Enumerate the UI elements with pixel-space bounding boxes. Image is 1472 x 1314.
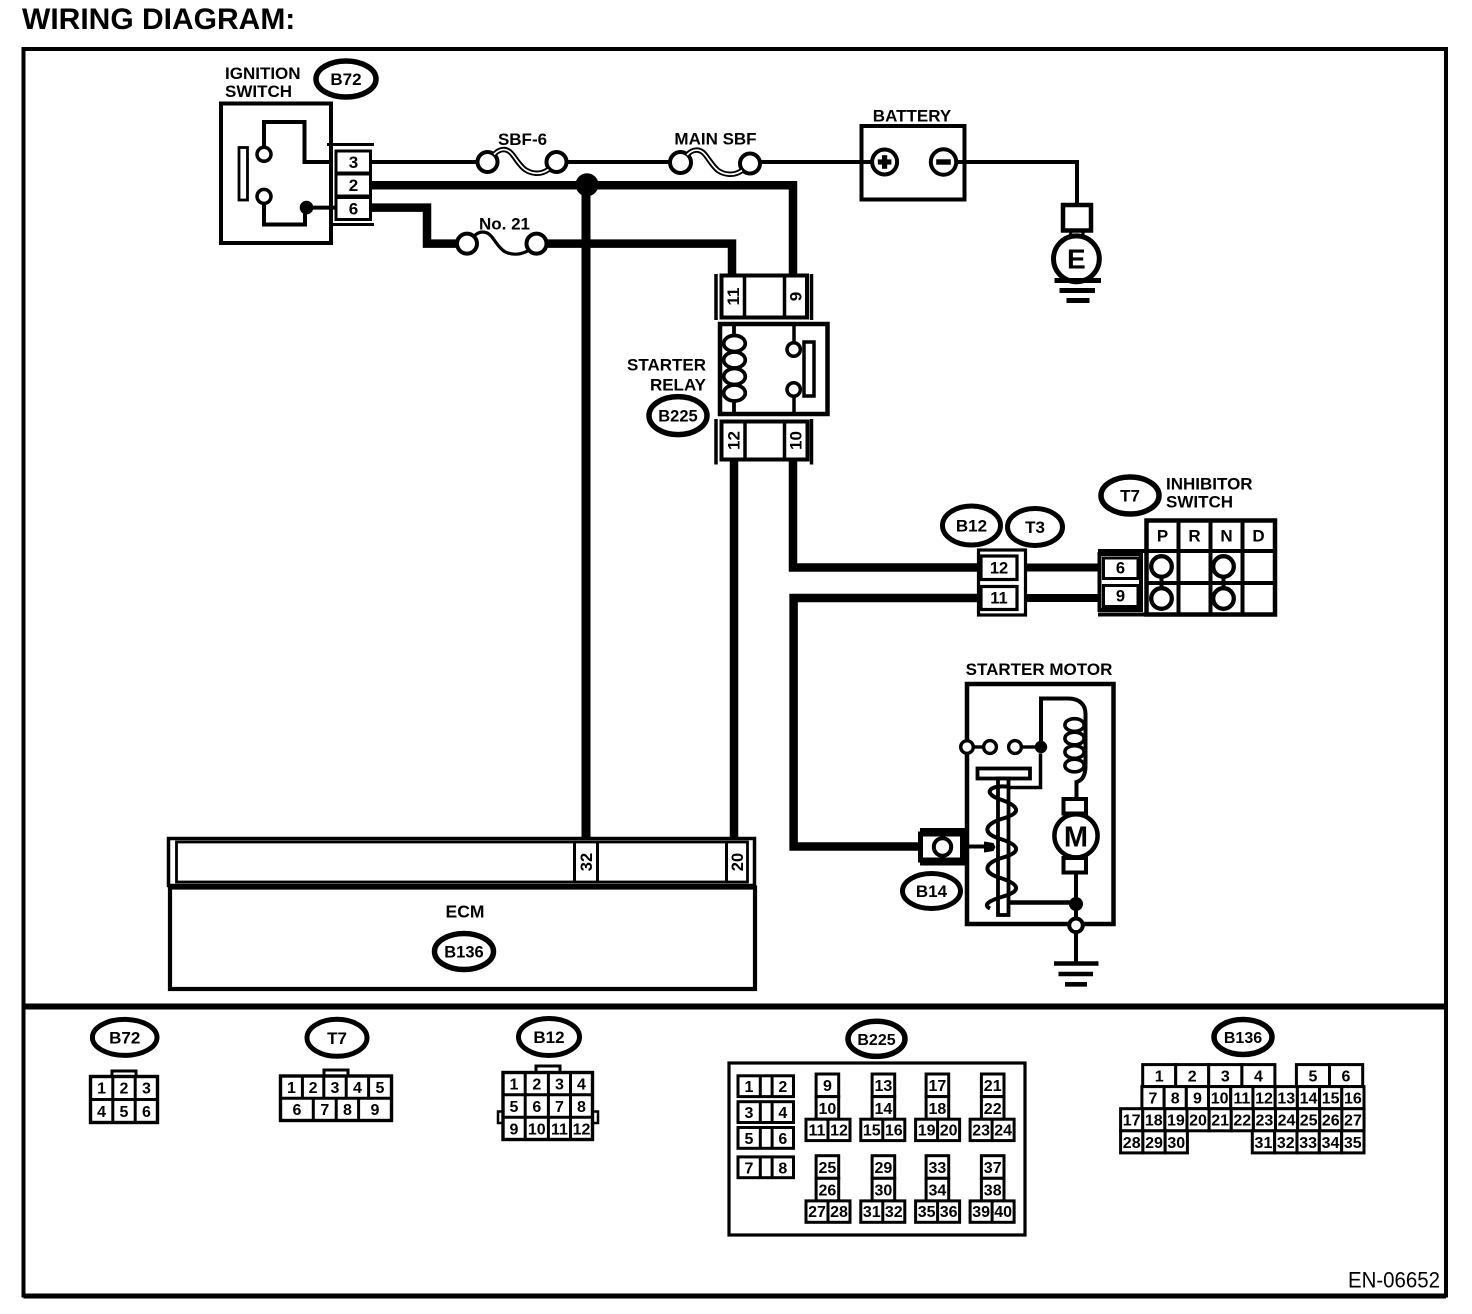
connector ref B72 oval (top) (316, 61, 376, 97)
svg-text:32: 32 (1277, 1135, 1295, 1152)
svg-text:31: 31 (863, 1204, 881, 1221)
ground E terminal square (1063, 205, 1091, 231)
svg-text:18: 18 (1145, 1113, 1163, 1130)
legend B72 connector grid (112, 1071, 136, 1077)
wire junction down to ECM pin 32 (582, 190, 591, 839)
motor M armature (1064, 799, 1087, 814)
svg-text:D: D (1252, 527, 1264, 546)
connector B12 pin 12 cell (981, 556, 1017, 580)
svg-text:2: 2 (309, 1080, 318, 1097)
ignition switch SW1 box (221, 104, 331, 244)
svg-text:25: 25 (819, 1160, 837, 1177)
legend B136 oval (1214, 1020, 1272, 1055)
battery minus terminal (931, 149, 956, 174)
connector T7 pin 6 cell (1104, 558, 1139, 579)
svg-text:10: 10 (787, 431, 806, 450)
svg-text:6: 6 (532, 1099, 541, 1116)
svg-text:3: 3 (349, 153, 358, 172)
svg-text:26: 26 (1322, 1113, 1340, 1130)
svg-text:15: 15 (863, 1122, 881, 1139)
battery plus terminal (872, 150, 897, 175)
svg-text:3: 3 (331, 1080, 340, 1097)
svg-text:36: 36 (940, 1204, 958, 1221)
ECM box (170, 888, 755, 990)
svg-text:16: 16 (885, 1122, 903, 1139)
svg-text:No. 21: No. 21 (479, 215, 530, 234)
legend B136 connector grid (1143, 1065, 1176, 1087)
svg-text:8: 8 (778, 1160, 787, 1177)
legend B225 pin group 17-20 (926, 1074, 949, 1097)
svg-text:20: 20 (1189, 1113, 1207, 1130)
legend B12 oval (519, 1019, 580, 1056)
svg-text:5: 5 (510, 1099, 519, 1116)
relay top connector box (722, 276, 808, 318)
svg-text:12: 12 (573, 1122, 591, 1139)
svg-text:4: 4 (1254, 1069, 1263, 1086)
wire junction to case node (1074, 904, 1078, 919)
svg-text:N: N (1220, 527, 1232, 546)
svg-text:30: 30 (875, 1183, 893, 1200)
separator line above connector legend (24, 1004, 1447, 1010)
fuse SBF-6 (478, 152, 498, 172)
junction node main feed (576, 173, 599, 196)
legend B225 pin group 29-32 (872, 1156, 895, 1179)
wire SBF-6 to MAIN SBF (567, 160, 671, 164)
svg-text:7: 7 (1149, 1091, 1158, 1108)
svg-text:B225: B225 (857, 1032, 895, 1049)
svg-text:19: 19 (1167, 1113, 1185, 1130)
wire ignition contact bottom to pin 6 (264, 203, 305, 224)
svg-text:18: 18 (929, 1101, 947, 1118)
connector ref T3 oval (1008, 509, 1063, 546)
svg-text:6: 6 (293, 1102, 302, 1119)
connector B12-T3 outer box (979, 550, 1026, 615)
svg-text:1: 1 (287, 1080, 296, 1097)
svg-text:32: 32 (885, 1204, 903, 1221)
wire B12-12 to T7-6 (1026, 564, 1099, 572)
svg-text:M: M (1064, 821, 1088, 853)
svg-text:12: 12 (1255, 1091, 1273, 1108)
legend B225 outer box (729, 1063, 1025, 1235)
wire pin 3 to fuse SBF-6 (371, 160, 478, 164)
inhibitor contact P (1151, 556, 1172, 577)
wire B12-11 to T7-9 (1026, 594, 1099, 602)
svg-text:27: 27 (1344, 1113, 1362, 1130)
svg-text:29: 29 (1145, 1135, 1163, 1152)
svg-text:SWITCH: SWITCH (1166, 493, 1233, 512)
wire plunger bottom to junction (1009, 900, 1077, 905)
relay contact (792, 324, 796, 343)
legend B225 oval (848, 1021, 905, 1056)
wire pin 6 to fuse No. 21 (371, 208, 458, 244)
svg-text:ECM: ECM (446, 902, 485, 922)
svg-text:9: 9 (823, 1078, 832, 1095)
svg-text:9: 9 (1116, 588, 1125, 606)
svg-text:21: 21 (1211, 1113, 1229, 1130)
svg-text:12: 12 (990, 560, 1008, 578)
inhibitor switch grid (1147, 521, 1276, 615)
solenoid plunger stem (998, 779, 1009, 916)
svg-text:11: 11 (724, 288, 743, 306)
wire MAIN SBF to battery (760, 160, 873, 164)
wire motor to junction (1074, 873, 1078, 899)
svg-text:SWITCH: SWITCH (225, 82, 292, 101)
svg-text:33: 33 (1299, 1135, 1317, 1152)
svg-text:14: 14 (875, 1101, 893, 1118)
svg-text:34: 34 (1322, 1135, 1340, 1152)
svg-text:32: 32 (578, 853, 596, 871)
svg-text:6: 6 (1116, 560, 1125, 578)
legend T7 oval (307, 1019, 367, 1056)
svg-text:1: 1 (1155, 1069, 1164, 1086)
legend B225 pin group 37-40 (981, 1156, 1004, 1179)
svg-text:22: 22 (1233, 1113, 1251, 1130)
ignition switch contact bottom (257, 189, 271, 203)
svg-text:39: 39 (972, 1204, 990, 1221)
legend B72 oval (92, 1019, 157, 1055)
svg-text:5: 5 (376, 1080, 385, 1097)
wire battery to ground E (956, 162, 1077, 206)
svg-text:STARTER MOTOR: STARTER MOTOR (966, 660, 1113, 679)
svg-text:40: 40 (994, 1204, 1012, 1221)
svg-text:1: 1 (745, 1079, 754, 1096)
svg-text:33: 33 (929, 1160, 947, 1177)
svg-text:6: 6 (349, 200, 358, 219)
svg-text:B136: B136 (444, 944, 483, 962)
svg-text:38: 38 (984, 1183, 1002, 1200)
connector B72 bracket (327, 143, 374, 146)
legend B225 pin group 13-16 (872, 1074, 895, 1097)
svg-text:7: 7 (555, 1099, 564, 1116)
connector ref T7 oval (top) (1101, 477, 1159, 514)
svg-text:9: 9 (1193, 1091, 1202, 1108)
wire plunger to contact dot (1009, 754, 1041, 788)
svg-text:5: 5 (120, 1104, 129, 1121)
connector B14 pin circle (934, 838, 951, 855)
motor field coil (1065, 719, 1084, 732)
svg-text:23: 23 (1256, 1113, 1274, 1130)
connector ref B136 oval (ECM) (435, 934, 494, 970)
svg-text:17: 17 (929, 1078, 947, 1095)
contact junction dot (1035, 741, 1047, 753)
connector B14 box (921, 834, 963, 860)
connector T7 pin 9 cell (1104, 586, 1139, 607)
svg-text:30: 30 (1167, 1135, 1185, 1152)
svg-text:R: R (1188, 527, 1200, 546)
relay top connector bracket (714, 274, 718, 320)
svg-text:3: 3 (555, 1077, 564, 1094)
legend B225 pin group 21-24 (981, 1074, 1004, 1097)
connector ref B12 oval (mid) (943, 506, 1001, 545)
ground symbol starter motor (1054, 961, 1099, 966)
svg-text:2: 2 (1188, 1069, 1197, 1086)
svg-text:35: 35 (1344, 1135, 1362, 1152)
legend T7 connector grid (324, 1070, 348, 1076)
svg-text:15: 15 (1322, 1091, 1340, 1108)
svg-text:IGNITION: IGNITION (225, 64, 301, 83)
wire dot to pin 6 (307, 206, 337, 210)
connector ref B225 oval (relay) (649, 397, 707, 435)
connector B72 pin 6 cell (336, 198, 371, 220)
svg-text:8: 8 (343, 1102, 352, 1119)
svg-text:11: 11 (809, 1122, 826, 1139)
svg-text:2: 2 (532, 1077, 541, 1094)
svg-text:3: 3 (745, 1105, 754, 1122)
svg-text:19: 19 (918, 1122, 936, 1139)
wire pin 2 to relay pin 9 (371, 185, 794, 274)
svg-text:14: 14 (1300, 1091, 1318, 1108)
svg-text:RELAY: RELAY (650, 376, 707, 395)
svg-text:T7: T7 (327, 1029, 347, 1048)
svg-text:20: 20 (729, 853, 747, 871)
svg-text:12: 12 (725, 431, 744, 450)
wire No. 21 to relay pin 11 (547, 244, 733, 274)
svg-text:6: 6 (778, 1131, 787, 1148)
svg-text:31: 31 (1255, 1135, 1273, 1152)
fuse MAIN SBF (670, 152, 691, 173)
legend B225 pin group 33-36 (926, 1156, 949, 1179)
svg-text:16: 16 (1344, 1091, 1362, 1108)
legend B12 connector grid (536, 1066, 560, 1073)
svg-text:8: 8 (1171, 1091, 1180, 1108)
svg-text:11: 11 (1233, 1091, 1250, 1108)
svg-text:B136: B136 (1224, 1030, 1262, 1047)
svg-text:2: 2 (120, 1081, 129, 1098)
connector B12 pin 11 cell (981, 587, 1017, 610)
svg-text:8: 8 (577, 1099, 586, 1116)
svg-text:37: 37 (984, 1160, 1002, 1177)
svg-text:B12: B12 (956, 517, 987, 536)
svg-text:B225: B225 (658, 408, 697, 426)
svg-text:5: 5 (1309, 1069, 1318, 1086)
svg-text:11: 11 (551, 1122, 568, 1139)
inhibitor contact N (1213, 556, 1234, 577)
wire ignition contact top to pin 3 (264, 122, 331, 162)
relay bottom connector box (722, 422, 808, 460)
svg-text:35: 35 (918, 1204, 936, 1221)
ground E circle (1054, 236, 1100, 282)
svg-text:MAIN SBF: MAIN SBF (674, 130, 756, 149)
solenoid spring (987, 786, 1016, 908)
svg-text:34: 34 (929, 1183, 947, 1200)
svg-text:28: 28 (830, 1204, 848, 1221)
svg-text:B12: B12 (533, 1028, 564, 1047)
svg-text:10: 10 (1211, 1091, 1229, 1108)
legend B225 pin group 25-28 (816, 1156, 839, 1179)
battery box (862, 126, 965, 200)
relay B225 body (720, 324, 828, 414)
svg-text:2: 2 (349, 176, 358, 195)
svg-text:13: 13 (1277, 1091, 1295, 1108)
svg-text:4: 4 (353, 1080, 362, 1097)
svg-text:1: 1 (97, 1081, 106, 1098)
svg-text:WIRING DIAGRAM:: WIRING DIAGRAM: (22, 3, 295, 36)
relay coil (732, 324, 736, 336)
svg-text:28: 28 (1123, 1135, 1141, 1152)
ECM connector strip (169, 839, 755, 886)
wire relay pin 12 to ECM pin 20 (730, 460, 739, 839)
svg-text:B72: B72 (330, 70, 361, 89)
svg-text:24: 24 (994, 1122, 1012, 1139)
svg-text:22: 22 (984, 1101, 1002, 1118)
svg-text:7: 7 (320, 1102, 329, 1119)
wire B12-11 to starter motor B14 (794, 598, 979, 847)
svg-text:4: 4 (577, 1077, 586, 1094)
svg-text:10: 10 (528, 1122, 546, 1139)
svg-text:29: 29 (875, 1160, 893, 1177)
wire B14 into solenoid (966, 845, 984, 849)
svg-text:B14: B14 (916, 882, 948, 901)
svg-text:11: 11 (990, 590, 1007, 608)
svg-text:24: 24 (1278, 1113, 1296, 1130)
svg-text:T3: T3 (1025, 518, 1045, 537)
svg-text:17: 17 (1123, 1113, 1141, 1130)
svg-text:3: 3 (142, 1081, 151, 1098)
relay bottom connector bracket (714, 419, 718, 465)
solenoid feed arrow (984, 842, 996, 853)
ground symbol E (1055, 278, 1102, 283)
ignition switch contact top (257, 147, 271, 161)
svg-text:9: 9 (510, 1122, 519, 1139)
connector T7 box (1100, 554, 1142, 610)
svg-text:9: 9 (787, 292, 806, 301)
svg-text:25: 25 (1300, 1113, 1318, 1130)
svg-text:6: 6 (1342, 1069, 1351, 1086)
connector B72 pin 3 cell (336, 151, 371, 173)
legend B225 pin pairs 1-8 (738, 1076, 794, 1097)
svg-text:STARTER: STARTER (627, 356, 706, 375)
svg-text:5: 5 (745, 1131, 754, 1148)
svg-text:23: 23 (972, 1122, 990, 1139)
svg-text:BATTERY: BATTERY (873, 107, 952, 126)
wire relay pin 10 to B12 pin 12 (793, 460, 979, 568)
legend B225 pin group 9-12 (816, 1074, 839, 1097)
svg-text:10: 10 (819, 1101, 837, 1118)
svg-text:SBF-6: SBF-6 (498, 130, 547, 149)
connector B72 pin 2 cell (336, 174, 371, 196)
svg-text:12: 12 (830, 1122, 848, 1139)
junction dot inside ignition switch (300, 201, 314, 215)
svg-text:INHIBITOR: INHIBITOR (1166, 475, 1253, 494)
svg-text:9: 9 (371, 1102, 380, 1119)
svg-text:E: E (1067, 244, 1086, 275)
svg-text:2: 2 (778, 1079, 787, 1096)
solenoid contact circles (961, 741, 974, 754)
connector T7 bracket (1098, 549, 1145, 553)
wire contact to motor coil (1041, 699, 1086, 800)
svg-text:3: 3 (1221, 1069, 1230, 1086)
ground E neck (1069, 229, 1072, 238)
svg-text:B72: B72 (109, 1028, 140, 1047)
solenoid plunger T-bar (978, 769, 1031, 779)
fuse No. 21 (457, 234, 477, 254)
connector B14 bracket (920, 828, 965, 832)
svg-text:27: 27 (808, 1204, 826, 1221)
svg-text:21: 21 (984, 1078, 1002, 1095)
svg-text:P: P (1157, 527, 1168, 546)
svg-text:26: 26 (819, 1183, 837, 1200)
svg-text:7: 7 (745, 1160, 754, 1177)
junction dot below motor (1069, 897, 1083, 911)
case node circle (1069, 919, 1083, 933)
svg-text:13: 13 (875, 1078, 893, 1095)
connector ref B14 oval (903, 874, 961, 909)
border frame bottom edge (24, 1294, 1447, 1299)
svg-text:4: 4 (778, 1105, 787, 1122)
svg-text:4: 4 (97, 1104, 106, 1121)
svg-text:EN-06652: EN-06652 (1348, 1268, 1440, 1293)
wire case node to ground (1074, 932, 1078, 962)
svg-text:6: 6 (142, 1104, 151, 1121)
svg-text:T7: T7 (1120, 487, 1140, 506)
svg-text:1: 1 (510, 1077, 519, 1094)
ignition switch key bar (239, 148, 248, 201)
svg-text:20: 20 (940, 1122, 958, 1139)
starter motor box (967, 684, 1114, 924)
